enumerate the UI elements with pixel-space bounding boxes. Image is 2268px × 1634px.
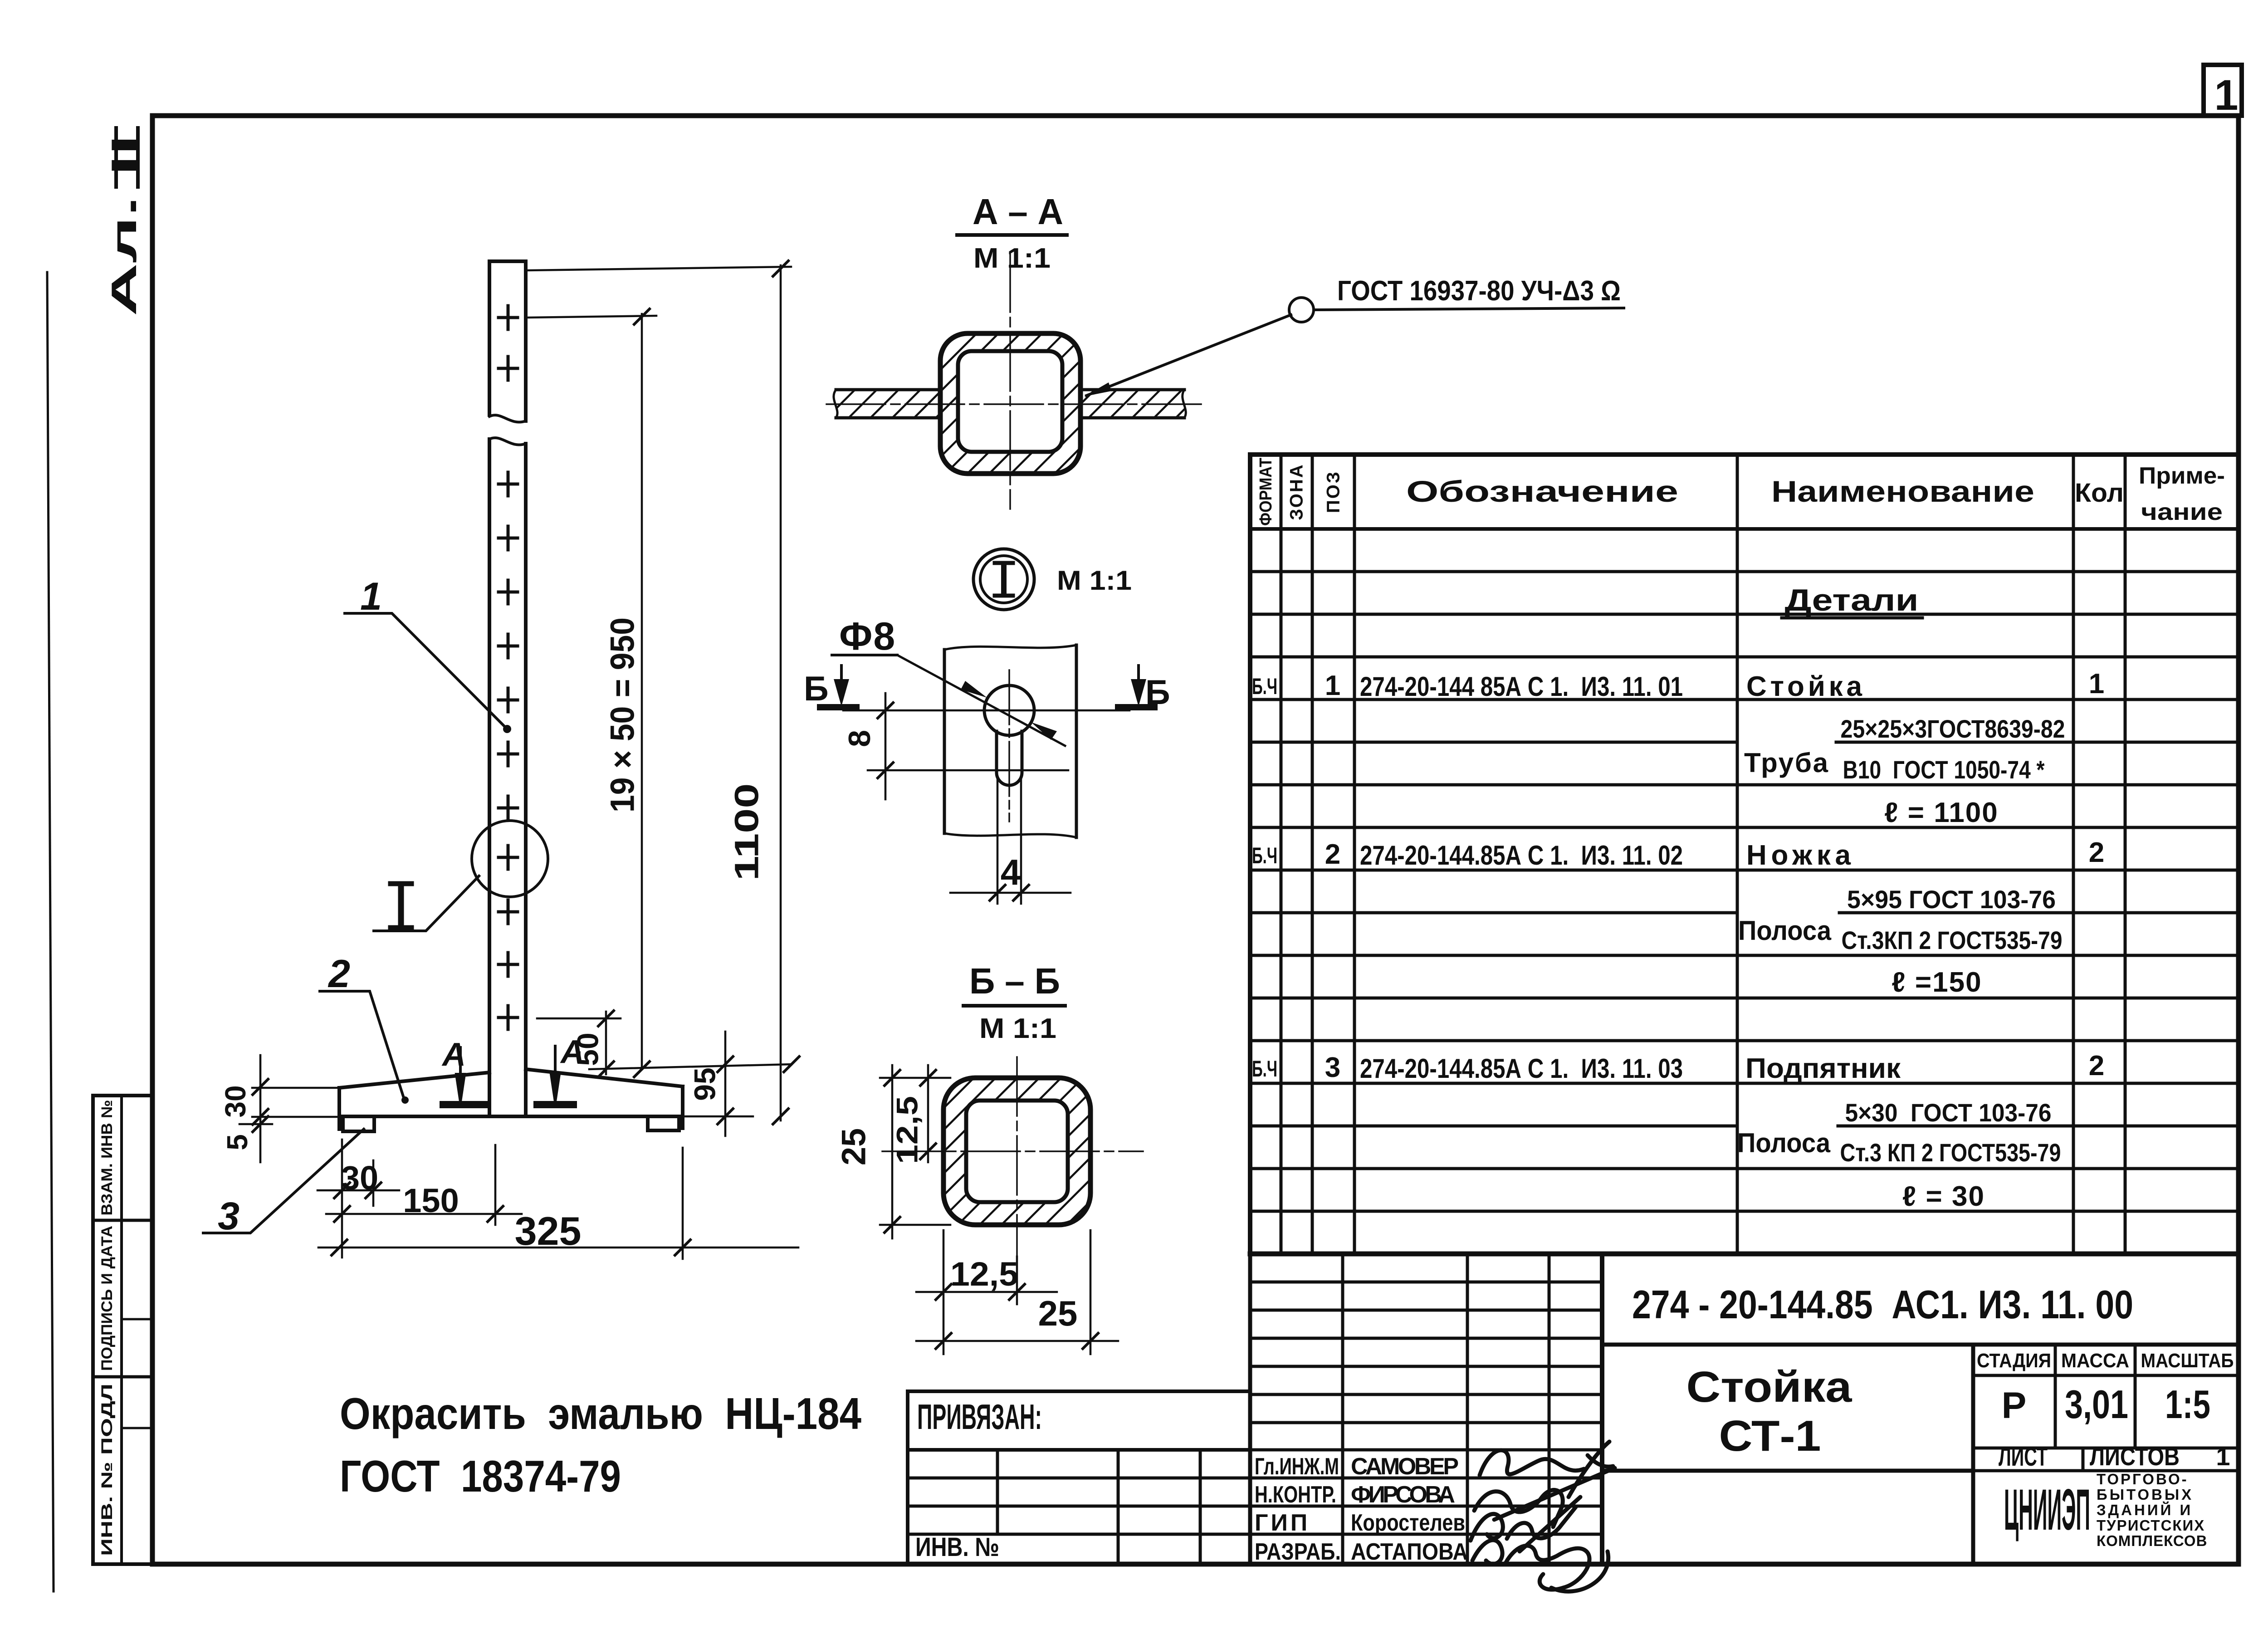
svg-text:А: А	[441, 1037, 466, 1073]
svg-text:КОМПЛЕКСОВ: КОМПЛЕКСОВ	[2097, 1532, 2207, 1549]
svg-text:М 1:1: М 1:1	[1057, 565, 1132, 596]
svg-text:М 1:1: М 1:1	[979, 1013, 1056, 1044]
svg-text:Б – Б: Б – Б	[969, 961, 1060, 1001]
svg-text:1: 1	[1325, 670, 1340, 701]
svg-text:ЗОНА: ЗОНА	[1287, 463, 1307, 520]
svg-text:3: 3	[218, 1194, 240, 1238]
svg-text:1: 1	[2089, 668, 2104, 700]
svg-text:Ст.3КП 2 ГОСТ535-79: Ст.3КП 2 ГОСТ535-79	[1842, 926, 2063, 954]
svg-text:Окрасить эмалью НЦ-184: Окрасить эмалью НЦ-184	[340, 1389, 861, 1438]
svg-text:Коростелев: Коростелев	[1351, 1510, 1465, 1536]
svg-text:19 × 50 = 950: 19 × 50 = 950	[604, 617, 641, 812]
svg-text:Ф8: Ф8	[839, 615, 896, 658]
svg-text:Обозначение: Обозначение	[1406, 475, 1678, 508]
svg-text:5×95 ГОСТ 103-76: 5×95 ГОСТ 103-76	[1847, 885, 2056, 914]
svg-text:ℓ = 1100: ℓ = 1100	[1884, 797, 1998, 828]
svg-text:Полоса: Полоса	[1738, 915, 1832, 946]
svg-text:ℓ = 30: ℓ = 30	[1902, 1181, 1985, 1212]
svg-text:25: 25	[1038, 1293, 1078, 1333]
svg-text:Детали: Детали	[1785, 583, 1919, 617]
svg-text:Н.КОНТР.: Н.КОНТР.	[1255, 1482, 1336, 1508]
svg-text:1100: 1100	[728, 783, 766, 881]
svg-text:ЗДАНИЙ И: ЗДАНИЙ И	[2097, 1501, 2193, 1518]
svg-text:Ножка: Ножка	[1746, 840, 1851, 871]
svg-text:ТУРИСТСКИХ: ТУРИСТСКИХ	[2097, 1517, 2205, 1534]
svg-text:2: 2	[2089, 1050, 2104, 1081]
svg-text:12,5: 12,5	[890, 1096, 924, 1164]
svg-text:30: 30	[219, 1085, 252, 1117]
svg-text:ℓ =150: ℓ =150	[1892, 967, 1982, 998]
svg-text:Кол: Кол	[2075, 478, 2124, 508]
svg-text:4: 4	[1001, 852, 1021, 892]
svg-text:8: 8	[842, 730, 877, 747]
svg-text:Р: Р	[2002, 1385, 2027, 1426]
svg-text:ТОРГОВО-: ТОРГОВО-	[2097, 1471, 2189, 1487]
svg-text:Полоса: Полоса	[1737, 1128, 1831, 1158]
svg-text:1: 1	[360, 575, 382, 618]
svg-text:1:5: 1:5	[2165, 1382, 2210, 1427]
svg-text:Наименование: Наименование	[1771, 475, 2034, 508]
svg-text:274-20-144.85А С 1. И3. 11. 0: 274-20-144.85А С 1. И3. 11. 02	[1360, 840, 1683, 871]
svg-text:Б.Ч: Б.Ч	[1252, 674, 1277, 699]
svg-text:5×30 ГОСТ 103-76: 5×30 ГОСТ 103-76	[1845, 1098, 2052, 1127]
svg-text:25×25×3ГОСТ8639-82: 25×25×3ГОСТ8639-82	[1841, 714, 2065, 743]
svg-text:ГОСТ 18374-79: ГОСТ 18374-79	[340, 1451, 621, 1501]
svg-text:274-20-144.85А С 1. И3. 11. 0: 274-20-144.85А С 1. И3. 11. 03	[1360, 1053, 1683, 1084]
svg-text:Б: Б	[804, 670, 829, 708]
svg-text:ФОРМАТ: ФОРМАТ	[1256, 458, 1276, 526]
svg-text:ГОСТ 16937-80 УЧ-Δ3 Ω: ГОСТ 16937-80 УЧ-Δ3 Ω	[1337, 275, 1621, 307]
svg-text:Ст.3 КП 2 ГОСТ535-79: Ст.3 КП 2 ГОСТ535-79	[1840, 1138, 2061, 1167]
svg-text:Подпятник: Подпятник	[1745, 1053, 1901, 1084]
svg-text:чание: чание	[2141, 499, 2223, 525]
svg-text:САМОВЕР: САМОВЕР	[1351, 1453, 1459, 1480]
svg-text:325: 325	[515, 1208, 582, 1253]
svg-text:3: 3	[1325, 1052, 1340, 1083]
svg-text:Б: Б	[1145, 673, 1170, 712]
svg-text:150: 150	[403, 1182, 459, 1219]
svg-text:274-20-144 85А С 1. И3. 11. 0: 274-20-144 85А С 1. И3. 11. 01	[1360, 671, 1683, 702]
svg-text:Стойка: Стойка	[1686, 1363, 1853, 1411]
svg-text:95: 95	[688, 1067, 721, 1101]
svg-text:СТАДИЯ: СТАДИЯ	[1977, 1350, 2051, 1372]
svg-text:ВЗАМ. ИНВ №: ВЗАМ. ИНВ №	[98, 1100, 116, 1216]
svg-text:Б.Ч: Б.Ч	[1252, 843, 1277, 868]
svg-text:ГИП: ГИП	[1255, 1510, 1310, 1536]
svg-text:СТ-1: СТ-1	[1719, 1412, 1821, 1460]
svg-text:2: 2	[1325, 839, 1340, 870]
svg-text:ЛИСТ: ЛИСТ	[1999, 1442, 2048, 1472]
svg-text:ПРИВЯЗАН:: ПРИВЯЗАН:	[917, 1397, 1042, 1437]
svg-text:274 - 20-144.85 АС1. И3. 11.: 274 - 20-144.85 АС1. И3. 11. 00	[1632, 1282, 2133, 1327]
svg-text:30: 30	[341, 1159, 378, 1197]
svg-text:В10 ГОСТ 1050-74 *: В10 ГОСТ 1050-74 *	[1843, 755, 2045, 784]
svg-text:ЦНИИЭП: ЦНИИЭП	[2004, 1477, 2090, 1542]
svg-text:12,5: 12,5	[950, 1255, 1018, 1293]
svg-text:ФИРСОВА: ФИРСОВА	[1351, 1482, 1455, 1508]
svg-text:А – А: А – А	[973, 191, 1063, 232]
svg-text:МАСШТАБ: МАСШТАБ	[2141, 1350, 2234, 1372]
svg-text:Гл.ИНЖ.М: Гл.ИНЖ.М	[1255, 1453, 1339, 1480]
svg-text:ЛИСТОВ: ЛИСТОВ	[2090, 1442, 2180, 1471]
svg-text:Труба: Труба	[1744, 748, 1828, 778]
svg-text:50: 50	[571, 1032, 604, 1066]
svg-text:Стойка: Стойка	[1746, 671, 1862, 702]
svg-text:АСТАПОВА: АСТАПОВА	[1351, 1539, 1468, 1565]
svg-text:ПОДПИСЬ И ДАТА: ПОДПИСЬ И ДАТА	[98, 1226, 116, 1371]
svg-text:ИНВ. №: ИНВ. №	[915, 1532, 999, 1562]
svg-text:БЫТОВЫХ: БЫТОВЫХ	[2097, 1486, 2194, 1503]
svg-text:2: 2	[2089, 837, 2104, 868]
svg-text:МАССА: МАССА	[2061, 1350, 2129, 1372]
svg-text:ИНВ. № ПОДЛ: ИНВ. № ПОДЛ	[98, 1384, 116, 1556]
svg-text:ПОЗ: ПОЗ	[1324, 470, 1344, 513]
svg-text:1: 1	[2216, 1442, 2230, 1471]
svg-text:Б.Ч: Б.Ч	[1252, 1056, 1277, 1081]
svg-text:2: 2	[327, 952, 350, 996]
svg-text:3,01: 3,01	[2065, 1382, 2128, 1427]
svg-text:1: 1	[2214, 71, 2239, 119]
svg-text:5: 5	[221, 1134, 254, 1150]
svg-text:М 1:1: М 1:1	[973, 243, 1051, 274]
svg-text:Приме-: Приме-	[2139, 463, 2225, 489]
svg-text:РАЗРАБ.: РАЗРАБ.	[1255, 1539, 1341, 1565]
svg-text:25: 25	[835, 1128, 873, 1165]
